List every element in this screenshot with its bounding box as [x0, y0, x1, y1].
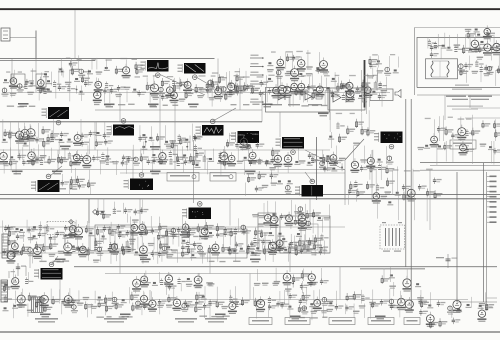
wire riser V27: [59, 280, 61, 300]
capacitor C12 (IF strip row): [355, 86, 365, 94]
wire riser V34: [11, 59, 13, 83]
value label N28 (vert output row): [171, 249, 178, 262]
antenna terminal block (left edge top): [1, 28, 10, 41]
value label N5 (AGC components): [96, 58, 103, 75]
capacitor C40 (vert osc sub): [124, 203, 133, 223]
component X61 (vert output row): [254, 238, 261, 256]
resistor R41 (AGC keyer row): [58, 154, 66, 163]
wire sync bus y169: [0, 169, 345, 171]
tube V55 (vert output row): [211, 241, 220, 262]
wire riser V7: [261, 95, 263, 122]
waveform photo W10: [124, 173, 154, 190]
resistor R52 (sync output bits): [255, 171, 267, 192]
wire riser V32: [444, 95, 446, 120]
component X18 (video amp row): [67, 139, 73, 143]
resistor R94 (vert output row): [294, 236, 303, 256]
value label N45 (tuner mixer components): [496, 55, 500, 86]
tube V44 (vert osc row): [74, 220, 83, 240]
waveform photo W9: [31, 174, 60, 192]
transformer T2 secondary box: [370, 89, 393, 101]
component X66 (horiz out bits): [389, 267, 396, 296]
resistor R110 (power row left): [241, 297, 249, 306]
capacitor C49 (vert osc row): [117, 224, 127, 239]
inductor L20 (vert osc row): [234, 218, 242, 243]
resistor R48 (noise inverter bits): [70, 177, 79, 196]
waveform photo W5: [196, 119, 224, 135]
tube V31 (AGC keyer row): [82, 145, 91, 168]
footnote box 3: [329, 318, 355, 325]
sync separator box: [266, 88, 330, 113]
pointer line from W5: [213, 108, 236, 121]
sound takeoff stub N3: [250, 72, 264, 76]
tube V22 (video amp row): [21, 123, 30, 147]
resistor R97 (damper bits): [292, 274, 301, 287]
tube V37 (AGC keyer row): [284, 152, 293, 173]
waveform photo W11: [182, 202, 211, 219]
resistor R39 (tuner osc components): [493, 119, 500, 164]
potentiometer R71 (vert osc row): [240, 225, 251, 235]
capacitor C27 (AGC keyer row): [22, 147, 31, 166]
resistor R103 (power row left): [105, 295, 114, 315]
resistor R60 (vert osc row): [85, 221, 93, 233]
tube V11 (IF strip row): [283, 83, 292, 106]
channel switch contact bank: [487, 176, 497, 224]
resistor R55 (burst amp bits lower): [348, 181, 358, 204]
resistor R11 (IF strip row): [252, 85, 260, 94]
transformer T1 oscillator coil box: [426, 59, 458, 79]
component X30 (AGC keyer row): [151, 154, 161, 171]
resistor R14 (IF strip row): [358, 80, 370, 99]
resistor R20 (AGC components right): [236, 68, 245, 92]
tube V69 (power row left): [148, 291, 157, 312]
capacitor C74 (power row mid): [287, 290, 297, 319]
inductor L8 (tuner osc components): [465, 129, 474, 154]
capacitor C31 (AGC keyer row): [127, 156, 136, 174]
page divider line lower: [0, 198, 500, 200]
tube V12 (IF strip row): [290, 80, 304, 106]
resistor R77 (horiz osc row lower): [314, 235, 322, 256]
inductor L30 (power row right): [359, 290, 370, 318]
resistor R121 (tuner rf components): [463, 34, 471, 54]
waveform photo W4: [107, 119, 135, 136]
inductor L16 (burst amp bits lower): [376, 184, 384, 190]
value label N10 (AGC keyer row): [112, 161, 119, 175]
value label N39 (power row left): [233, 286, 244, 306]
capacitor C24 (tuner osc components): [437, 116, 446, 165]
wire riser V21: [159, 226, 161, 254]
wire antenna lead: [10, 37, 36, 39]
capacitor C45 (vert osc row): [27, 220, 36, 244]
resistor R44 (AGC keyer row): [140, 149, 148, 175]
test point diamond TP1: [93, 210, 98, 215]
tube V80 (tuner top components): [483, 25, 495, 41]
tube V21 (video amp row): [15, 122, 26, 155]
component X25 (phase det components): [328, 112, 334, 148]
value labels row (IF strip row): [135, 75, 378, 78]
resistor R82 (vert output row): [42, 243, 51, 260]
footnote text left 3: [175, 318, 197, 323]
shielded box (dashed) width coil: [47, 222, 75, 235]
capacitor C23 (sync amp row): [256, 142, 265, 149]
capacitor C5 (IF strip row): [115, 85, 125, 97]
tube V71 (power row mid): [256, 296, 265, 312]
capacitor C30 (AGC keyer row): [121, 155, 131, 167]
wire riser V11: [132, 150, 134, 179]
tube V1 (IF strip row left): [9, 70, 18, 98]
component X67 (damper tube bits): [415, 283, 421, 287]
tube V30 (AGC keyer row): [72, 150, 84, 165]
resistor R98 (damper bits): [300, 269, 310, 294]
resistor R61 (vert osc row): [97, 226, 105, 235]
capacitor C3 (IF strip row left): [84, 69, 93, 86]
wire hv vertical x316: [316, 137, 318, 200]
tube V3 (IF strip row): [93, 77, 103, 103]
value labels row (phase det components): [336, 113, 355, 114]
component X24 (sync amp row): [246, 145, 252, 149]
component X42 (hv rectifier bits): [395, 166, 401, 220]
sync diode D1: [278, 93, 285, 100]
wire AGC bus y58: [0, 58, 215, 60]
crt note text: [447, 89, 483, 110]
tube V47 (vert osc row): [181, 217, 190, 244]
component X44 (vert osc row): [15, 228, 25, 240]
value label N46 (tuner top components): [465, 29, 476, 39]
capacitor C10 (IF strip row): [267, 75, 277, 102]
channel selector label: [446, 96, 492, 101]
footnote text left 1: [35, 318, 58, 323]
component X39 (sync output bits): [285, 180, 293, 194]
wire riser V18: [229, 199, 231, 226]
horiz osc box outline: [258, 213, 330, 253]
tube V75 (lv rectifier bits): [453, 297, 463, 313]
value label N30 (heater bits left): [1, 281, 12, 292]
potentiometer R72 (horiz osc row upper): [297, 207, 307, 231]
tube V10 (IF strip row): [278, 76, 287, 98]
resistor R62 (vert osc row): [109, 222, 119, 243]
tube V27 (tuner osc components): [457, 117, 467, 156]
resistor R12 (IF strip row): [337, 77, 345, 92]
tuner shield box: [417, 38, 500, 88]
resistor R17 (AGC components): [135, 62, 144, 75]
capacitor C60 (vert output row): [228, 246, 238, 255]
resistor R108 (power row left): [195, 292, 204, 313]
capacitor C43 (vert osc row): [3, 220, 13, 243]
resistor R109 (power row left): [216, 287, 224, 308]
component X10 (AGC components): [58, 58, 64, 77]
resistor R3 (IF strip row): [146, 77, 154, 102]
resistor R84 (vert output row): [93, 238, 103, 263]
wire riser V4: [159, 93, 161, 151]
resistor R28 (video amp row): [47, 134, 55, 142]
potentiometer R24 (ratio det components): [384, 56, 391, 76]
inductor L33 (tuner mixer components): [472, 60, 484, 74]
wire riser V5: [217, 59, 219, 93]
pointer line from W12: [305, 172, 312, 181]
component X4 (IF strip row left): [46, 72, 52, 93]
capacitor C4 (IF strip row): [110, 87, 119, 103]
value label N37 (power row left): [91, 291, 98, 314]
footnote text left 2: [104, 318, 127, 323]
value label N9 (AGC keyer row): [40, 147, 48, 165]
capacitor C41 (vert osc sub): [132, 209, 142, 223]
component X40 (burst amp bits): [377, 159, 387, 180]
resistor R100 (power row left): [27, 293, 37, 317]
tube V61 (heater bits mid): [194, 273, 203, 288]
tuner lower boundary: [417, 94, 500, 96]
resistor R47 (AGC keyer row): [269, 148, 280, 171]
capacitor C7 (IF strip row): [239, 78, 248, 93]
tube V34 (AGC keyer row): [227, 152, 236, 166]
wire audio verticals: [362, 70, 367, 114]
value label N24 (horiz osc row lower): [306, 228, 317, 246]
resistor R6 (IF strip row): [195, 84, 203, 93]
inductor L1 (IF strip row left): [53, 80, 61, 98]
tube V28 (AGC keyer row): [0, 149, 10, 173]
capacitor C37 (hv rectifier bits): [402, 184, 411, 200]
component X57 (vert output row): [134, 237, 140, 256]
value label N4 (IF strip row): [381, 77, 388, 93]
resistor R35 (phase det components): [367, 110, 375, 136]
component X36 (AGC keyer row): [318, 157, 326, 170]
component X37 (AGC keyer row): [325, 155, 334, 171]
capacitor C90 stack left: [9, 263, 26, 278]
footnote box 5: [404, 318, 420, 325]
component X2 (IF strip row left): [27, 68, 35, 95]
resistor R105 (power row left): [129, 287, 140, 311]
tube V6 (IF strip row): [183, 78, 193, 98]
component X62 (vert output row): [283, 235, 289, 252]
tube V25 (sync amp row): [239, 135, 250, 150]
wire riser V29: [249, 274, 251, 300]
resistor R16 (AGC components): [115, 66, 123, 75]
wire riser V35: [189, 136, 191, 151]
potentiometer R118 (lv rectifier bits): [447, 306, 454, 318]
resistor R69 (vert osc row): [216, 223, 225, 238]
value label N33 (damper bits): [262, 283, 269, 286]
inductor L3 (IF strip row): [170, 78, 182, 103]
inductor L2 (IF strip row): [103, 82, 113, 103]
control label box contrast: [167, 173, 199, 182]
component X54 (horiz osc row lower): [296, 233, 307, 247]
resistor R51 (sync output bits): [246, 174, 256, 196]
resistor R10 (IF strip row): [234, 75, 244, 96]
value label N8 (tuner osc components): [418, 147, 425, 150]
resistor R34 (phase det components): [361, 112, 369, 135]
component X29 (AGC keyer row): [105, 147, 114, 164]
tube V51 (vert output row): [63, 237, 72, 255]
capacitor C8 (IF strip row): [246, 84, 255, 91]
tube V9 (IF strip row): [272, 72, 281, 104]
value label N40 (power row mid): [327, 301, 335, 312]
capacitor C55 (horiz osc row upper): [280, 213, 289, 220]
capacitor C67 (power row left): [71, 299, 80, 314]
capacitor C69 (power row left): [181, 300, 192, 312]
potentiometer R80 (vert output row): [27, 248, 34, 264]
component X26 (tuner osc components): [424, 145, 430, 149]
value label N1 (IF strip row left): [65, 70, 76, 101]
value label N6 (sound IF components): [306, 50, 313, 76]
inductor L18 (vert osc row): [38, 221, 47, 238]
tube V19 (sound IF components): [297, 57, 306, 77]
wire vert drop x89: [88, 199, 90, 223]
value labels row (sync amp row): [229, 134, 258, 137]
capacitor C63 (vert output row): [250, 241, 259, 256]
resistor R117 (lv rectifier bits): [419, 295, 429, 316]
resistor R67 (vert osc row): [197, 224, 205, 241]
capacitor C36 (sync output bits): [270, 170, 279, 186]
wire row9 bus y299: [0, 299, 468, 301]
value label N22 (horiz osc row upper): [294, 205, 302, 226]
potentiometer R89 (vert output row): [197, 245, 206, 263]
wire row7 bus y253: [0, 252, 330, 254]
component X77 (tuner rf components): [468, 34, 474, 53]
inductor L1 tuner coil: [431, 61, 433, 77]
component X47 (vert osc row): [88, 232, 94, 236]
capacitor C1 (IF strip row left): [24, 79, 34, 88]
resistor R25 (video amp row): [2, 119, 13, 143]
resistor R93 (vert output row): [278, 234, 287, 252]
capacitor C53 (vert osc row): [187, 226, 196, 244]
capacitor C54 (vert osc row): [223, 227, 232, 237]
resistor R40 (AGC keyer row): [48, 148, 56, 165]
resistor R114 (power row right): [345, 293, 354, 314]
component X51 (horiz osc row lower): [268, 232, 277, 246]
footnote box 2: [285, 318, 310, 325]
potentiometer R122 (tuner mixer components): [458, 64, 468, 76]
capacitor C51 (vert osc row): [151, 216, 160, 234]
value label N16 (burst amp bits): [331, 146, 338, 172]
inductor L17 (vert osc sub): [113, 202, 121, 214]
resistor R42 (AGC keyer row): [60, 148, 68, 164]
component X9 (IF strip row): [330, 72, 339, 99]
potentiometer R88 (vert output row): [161, 235, 168, 262]
tube V15 (IF strip row): [345, 79, 355, 102]
capacitor C50 (vert osc row): [126, 230, 135, 237]
component X20 (video amp row right): [141, 134, 147, 154]
component X50 (horiz osc row upper): [317, 217, 323, 232]
capacitor C95 top right: [436, 254, 458, 268]
wire riser V33: [469, 95, 471, 108]
resistor R102 (power row left): [51, 289, 60, 305]
footnote text left 4: [205, 318, 227, 323]
resistor R75 (horiz osc row lower): [251, 228, 263, 256]
wire riser V1: [35, 59, 37, 93]
border bottom rule: [0, 331, 500, 333]
value label N34 (damper bits): [272, 268, 280, 286]
wire riser V36: [224, 150, 226, 170]
value label N13 (AGC keyer row): [299, 148, 306, 163]
inductor L13 (AGC keyer row): [203, 155, 211, 174]
inductor L6 (video amp row right): [178, 134, 189, 145]
sound takeoff stub N2: [250, 63, 264, 67]
value label N21 (horiz osc row upper): [258, 203, 265, 227]
inductor L15 (burst amp bits lower): [354, 180, 365, 201]
component X21 (video amp row right): [148, 126, 154, 158]
misc stage labels: [7, 104, 328, 319]
capacitor C2 (IF strip row left): [58, 68, 67, 91]
inductor L22 (vert output row): [126, 240, 136, 252]
tube V58 (heater bits mid): [132, 276, 141, 293]
wire row6 bus y225: [0, 226, 345, 228]
waveform photo W6: [231, 131, 259, 149]
tube V74 (power row right): [405, 297, 414, 313]
potentiometer R113 (power row mid): [321, 297, 328, 317]
resistor R59 (vert osc sub): [96, 199, 104, 216]
footnote box 1: [249, 318, 272, 325]
pointer line from W11: [193, 140, 195, 203]
capacitor C16 (video amp row): [58, 131, 68, 154]
inductor L12 (AGC keyer row): [169, 150, 178, 164]
value labels row (tuner osc components): [425, 117, 472, 120]
component X75 (tuner rf components): [441, 33, 447, 59]
wire riser V25: [209, 253, 211, 274]
flyback plus marks: [382, 222, 402, 252]
value label N36 (power row left): [83, 297, 93, 318]
value label N14 (AGC keyer row): [311, 156, 319, 162]
tube V77 (tuner rf components): [470, 37, 482, 52]
potentiometer R104 (power row left): [112, 292, 124, 310]
value labels row (AGC components right): [212, 71, 240, 74]
value label N32 (damper bits): [254, 269, 261, 286]
tube V73 (power row right): [397, 291, 406, 318]
component X28 (AGC keyer row): [9, 147, 18, 171]
value label N42 (power row right): [417, 290, 427, 306]
component X35 (AGC keyer row): [294, 161, 300, 165]
mixer sub-box outline: [11, 74, 25, 87]
tube V46 (vert osc row): [138, 221, 148, 237]
audio amp box U1: [328, 88, 365, 110]
capacitor C21 (video amp row right): [193, 124, 203, 151]
potentiometer R18 (AGC components right): [206, 80, 215, 98]
tube V20 (sound IF components): [319, 57, 329, 74]
sync diode D2: [305, 93, 312, 100]
tuner enclosure outer corner: [415, 28, 500, 96]
wire heater pair segment: [360, 268, 425, 270]
component X6 (IF strip row): [132, 89, 138, 93]
capacitor C57 (vert output row): [3, 249, 12, 256]
component X58 (vert output row): [166, 237, 173, 258]
potentiometer R116 (power row right): [388, 289, 398, 310]
resistor R87 (vert output row): [158, 237, 168, 264]
wire right bus y163: [420, 162, 500, 164]
tuner note label: [455, 85, 469, 86]
wire riser V15: [344, 170, 346, 200]
wire riser V13: [279, 112, 281, 137]
resistor R112 (power row mid): [301, 287, 310, 314]
inductor L9 (AGC keyer row): [68, 152, 79, 173]
resistor R96 (vert output row): [311, 235, 322, 255]
resistor R30 (video amp row right): [157, 133, 165, 141]
sound takeoff stub N4: [250, 81, 264, 85]
deflection yoke L3 vertical coil: [32, 297, 44, 313]
potentiometer R66 (vert osc row): [170, 228, 180, 244]
component X49 (horiz osc row upper): [270, 201, 279, 228]
wire riser V16: [88, 223, 90, 253]
potentiometer R85 (vert output row): [96, 234, 103, 262]
footnote box 4: [368, 318, 394, 325]
capacitor C56 (horiz osc row lower): [290, 240, 299, 247]
resistor R13 (IF strip row): [340, 81, 350, 100]
inductor L26 (heater bits mid): [177, 277, 185, 291]
tube V42 (hv rectifier bits): [407, 169, 416, 220]
capacitor C38 (hv rectifier bits): [418, 184, 427, 191]
wire riser V9: [94, 122, 96, 150]
resistor R31 (sync amp row): [226, 133, 234, 147]
component X23 (video amp row right): [184, 139, 190, 151]
capacitor C39 (hv rectifier bits): [433, 177, 443, 199]
resistor R22 (sound IF components): [285, 51, 295, 76]
capacitor C79 (fuse bits): [452, 318, 461, 325]
